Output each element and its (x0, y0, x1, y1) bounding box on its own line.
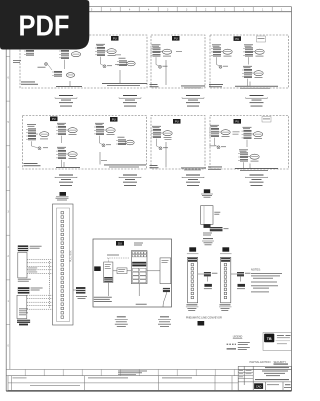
svg-text:CAD: CAD (256, 385, 262, 389)
svg-text:PU: PU (112, 118, 116, 122)
svg-text:PU: PU (235, 120, 239, 124)
bottom ruler band (6, 369, 291, 375)
wire harness to TB1 (lower) (27, 295, 53, 309)
block captions row 1 (21, 81, 35, 84)
title block stamp (254, 383, 263, 389)
pneumatic column PC1 (186, 247, 218, 310)
dashed zone borders row 1 (20, 35, 289, 88)
feeder label A-1 (row 1) (55, 95, 77, 107)
cabinet wires (108, 271, 160, 296)
top ruler band (25, 7, 272, 12)
power unit PU5c (56, 147, 77, 167)
power unit PU8b (242, 127, 263, 147)
block captions row 2 (24, 162, 38, 165)
power unit PU3 (151, 44, 172, 68)
extra micro texts in blocks (115, 54, 121, 57)
power unit PU2 (95, 44, 135, 68)
cabinet feeder label 2 (158, 316, 171, 327)
svg-text:PULL BOX: PULL BOX (70, 250, 73, 262)
power unit PU8c (238, 149, 259, 169)
ground bar (17, 320, 30, 323)
power unit PU8a (209, 125, 230, 149)
power unit PU6 (94, 123, 134, 147)
unit tags row 2 (50, 117, 58, 122)
feeder label B-4 (row 2) (246, 175, 268, 187)
svg-text:TB: TB (267, 337, 272, 341)
power unit PU4a (211, 44, 232, 68)
starter S1 (104, 262, 113, 283)
speaker device SP2 (17, 287, 43, 325)
revision table strip (8, 376, 238, 391)
feeder label B-2 (row 2) (119, 175, 141, 187)
feeder label B-1 (row 2) (55, 175, 77, 187)
svg-text:PU: PU (235, 37, 239, 41)
harness drop cable (49, 261, 51, 308)
HT feeder label (202, 238, 214, 245)
feeder label A-2 (row 1) (119, 95, 141, 107)
left ruler band (6, 56, 10, 324)
svg-text:PU: PU (52, 117, 56, 121)
pneumatic column PC2 (219, 247, 251, 310)
dashed zone borders row 2 (23, 116, 289, 170)
speaker device SP1 (18, 245, 42, 281)
svg-text:PNEUMATIC LINE CONVEYOR: PNEUMATIC LINE CONVEYOR (186, 317, 222, 320)
strip side connector (73, 287, 87, 299)
svg-text:NOTES:: NOTES: (251, 268, 261, 272)
svg-text:PARTIAL EDITION: PARTIAL EDITION (250, 361, 271, 364)
svg-text:PDF: PDF (19, 10, 70, 42)
relay K1 (117, 268, 127, 274)
power unit PU4b (243, 44, 264, 64)
junction box J1 (160, 258, 171, 307)
power unit PU5a (26, 124, 49, 150)
motor contactor tag (204, 189, 210, 193)
feeder label A-3 (row 1) (182, 95, 204, 107)
svg-text:DU: DU (118, 242, 122, 246)
title block (238, 366, 291, 390)
svg-text:PU: PU (174, 37, 178, 41)
unit tags row 1 (111, 36, 119, 41)
feeder label B-3 (row 2) (182, 175, 204, 187)
drop wires row 2 (64, 142, 250, 168)
svg-text:SECURITY: SECURITY (274, 361, 287, 364)
wire harness to TB1 (upper) (27, 259, 53, 273)
arm wire note (107, 254, 119, 257)
legend terminal box TB (263, 333, 291, 351)
cabinet feeder label (115, 316, 128, 327)
drop wires row 1 (70, 60, 250, 86)
power unit PU1 (13, 50, 81, 77)
power unit PU4c (242, 66, 263, 86)
power unit PU7 (151, 126, 172, 150)
svg-text:LEGEND: LEGEND (233, 337, 243, 339)
feeder label A-4 (row 1) (246, 95, 268, 107)
junction box J2 (201, 206, 229, 236)
terminal block strip TB1 (53, 204, 74, 325)
terminal strip tag (60, 192, 67, 196)
power unit PU5b (56, 123, 77, 143)
drive VFD1 (131, 251, 147, 284)
control cabinet detail box (93, 239, 172, 307)
svg-text:PU: PU (175, 120, 179, 124)
PDF badge (0, 0, 89, 50)
svg-text:PU: PU (113, 37, 117, 41)
